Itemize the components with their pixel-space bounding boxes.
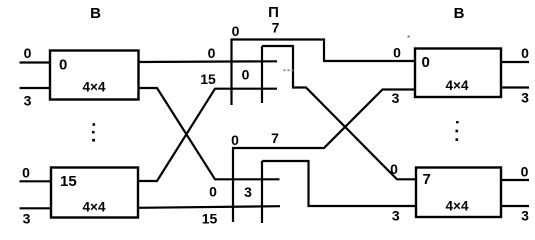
permutation bus bar 1 (lower half) <box>232 147 234 222</box>
svg-text:П: П <box>268 4 279 21</box>
wire output 0 of bottom-left box crossing up (X) <box>139 89 278 181</box>
svg-text:0: 0 <box>209 184 217 200</box>
svg-text:0: 0 <box>59 57 67 74</box>
svg-text:4×4: 4×4 <box>446 78 469 93</box>
svg-text:В: В <box>454 5 465 22</box>
svg-text:3: 3 <box>24 93 32 109</box>
switch box 0 (top-right 4x4) <box>415 49 501 98</box>
wire output 0 of bottom-right box <box>501 179 529 181</box>
svg-text:3: 3 <box>392 90 400 106</box>
wire upper permutation crossing down to bottom-right box <box>262 46 416 179</box>
wire upper permutation output 0 to top-right box <box>232 40 416 62</box>
wire output 0 of top-right box <box>501 61 529 63</box>
svg-text:3: 3 <box>244 184 252 200</box>
svg-text:0: 0 <box>393 45 401 61</box>
wire output 3 of bottom-left box straight through <box>139 206 281 208</box>
svg-text:7: 7 <box>423 171 431 188</box>
ellipsis between right boxes <box>456 121 459 141</box>
switch box 7 (bottom-right 4x4) <box>416 168 501 218</box>
wire input 3 of top-left box <box>20 87 51 89</box>
svg-text:3: 3 <box>521 90 529 106</box>
wire output 3 of bottom-right box <box>501 205 529 207</box>
svg-text:0: 0 <box>242 67 250 83</box>
svg-text:7: 7 <box>271 130 279 146</box>
svg-text:15: 15 <box>200 71 216 87</box>
svg-text:4×4: 4×4 <box>446 199 469 214</box>
switch box 0 (top-left 4x4) <box>50 51 139 100</box>
svg-text:0: 0 <box>24 45 32 61</box>
svg-text:0: 0 <box>22 165 30 181</box>
wire input 3 of bottom-left box <box>20 207 52 209</box>
svg-text:15: 15 <box>60 173 77 190</box>
svg-text:0: 0 <box>390 161 398 177</box>
wire lower permutation crossing up to top-right box <box>233 90 415 149</box>
svg-text:3: 3 <box>392 208 400 224</box>
svg-text:В: В <box>90 5 101 22</box>
svg-text:3: 3 <box>23 211 31 227</box>
svg-text:7: 7 <box>272 20 280 36</box>
wire input 0 of top-left box <box>20 61 51 63</box>
permutation bus bar 2 (lower half) <box>261 161 263 223</box>
permutation bus bar 2 (upper half) <box>261 46 263 103</box>
svg-text:4×4: 4×4 <box>83 80 106 95</box>
permutation bus bar 1 (upper half) <box>230 39 232 106</box>
svg-text:3: 3 <box>521 208 529 224</box>
svg-text:0: 0 <box>231 132 239 148</box>
wire output 3 of top-left box crossing down (X) <box>139 88 280 179</box>
ellipsis between left boxes <box>92 123 95 141</box>
wire input 0 of bottom-left box <box>20 180 52 182</box>
svg-text:4×4: 4×4 <box>83 200 106 215</box>
svg-text:0: 0 <box>521 45 529 61</box>
svg-text:0: 0 <box>521 164 529 180</box>
switch box 15 (bottom-left 4x4) <box>51 168 138 218</box>
wire output 0 of top-left box into permutation <box>139 60 278 63</box>
svg-text:15: 15 <box>202 211 218 227</box>
wire lower permutation output to bottom-right box <box>262 161 416 206</box>
svg-text:0: 0 <box>208 45 216 61</box>
svg-text:0: 0 <box>232 23 240 39</box>
svg-text:0: 0 <box>422 54 430 71</box>
wire output 3 of top-right box <box>501 86 529 88</box>
